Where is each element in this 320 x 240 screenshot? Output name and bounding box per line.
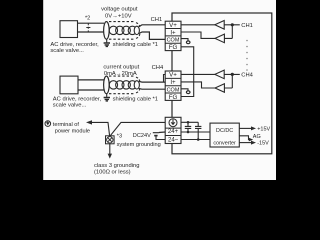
svg-text:*3: *3 (117, 133, 122, 139)
svg-text:-15V: -15V (257, 141, 269, 147)
svg-text:V+: V+ (169, 72, 177, 79)
svg-text:converter: converter (213, 141, 236, 147)
svg-text:0V→+10V: 0V→+10V (105, 13, 132, 19)
svg-text:24+: 24+ (168, 129, 179, 135)
svg-text:power module: power module (55, 128, 90, 134)
svg-text:system grounding: system grounding (117, 142, 161, 148)
svg-text:scale valve...: scale valve... (53, 102, 87, 108)
svg-text:scale valve...: scale valve... (50, 48, 84, 54)
svg-text:V+: V+ (169, 22, 177, 29)
svg-text:DC24V: DC24V (133, 133, 151, 139)
svg-text:+15V: +15V (257, 126, 270, 132)
svg-text:shielding cable *1: shielding cable *1 (113, 42, 158, 48)
svg-text:FG: FG (169, 94, 178, 101)
svg-text:CH4: CH4 (152, 65, 164, 71)
svg-text:*2: *2 (85, 16, 90, 22)
svg-text:class 3 grounding: class 3 grounding (94, 163, 139, 169)
svg-text:COM: COM (167, 38, 180, 44)
svg-text:(100Ω or less): (100Ω or less) (94, 169, 131, 175)
svg-text:I+: I+ (170, 79, 176, 86)
svg-text:CH1: CH1 (151, 17, 163, 23)
svg-text:COM: COM (167, 87, 180, 93)
svg-text:CH4: CH4 (241, 72, 253, 78)
svg-text:current output: current output (103, 65, 139, 71)
svg-text:AG: AG (253, 134, 261, 140)
svg-text:CH1: CH1 (241, 23, 253, 29)
svg-text:DC/DC: DC/DC (216, 128, 233, 134)
svg-text:24–: 24– (168, 137, 179, 143)
svg-text:I+: I+ (170, 29, 176, 36)
svg-text:FG: FG (169, 44, 178, 51)
svg-text:terminal of: terminal of (53, 122, 80, 128)
svg-text:shielding cable *1: shielding cable *1 (113, 97, 158, 103)
svg-text:voltage output: voltage output (101, 7, 138, 13)
